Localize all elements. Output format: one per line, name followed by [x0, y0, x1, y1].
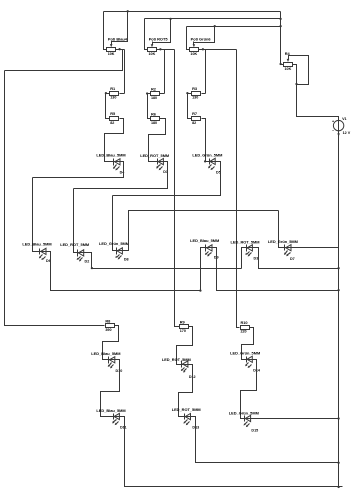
junction R1 left — [105, 92, 107, 94]
junction R3 left — [186, 92, 188, 94]
svg-text:Poti Blau4: Poti Blau4 — [108, 36, 128, 41]
svg-text:220: 220 — [240, 330, 246, 334]
svg-text:−: − — [332, 129, 334, 133]
wire top rail 1 (pot1 supply) — [104, 11, 281, 13]
wire pot1 to R1 right terminal — [124, 50, 126, 94]
svg-text:R1: R1 — [110, 86, 116, 91]
wire R7 right down to LED D5 — [202, 119, 210, 162]
svg-text:+: + — [332, 119, 334, 123]
junction pot2 wiper on rail2 — [169, 18, 171, 20]
wire pot2 branch down to R9 — [175, 50, 180, 327]
resistor R1 value 130 — [110, 86, 119, 100]
wire down into row2 right Gruen LED D7 — [279, 211, 285, 248]
wire D14 out jog to D15 — [241, 360, 257, 419]
wire R2 right stub — [160, 93, 165, 95]
wire V1 negative rail down right side — [338, 131, 340, 488]
wire D9 out down and right to negative rail — [213, 248, 339, 291]
svg-text:LED_Grün_5MM: LED_Grün_5MM — [192, 153, 222, 158]
svg-text:10K: 10K — [149, 52, 156, 56]
wire up into row2 right Blau LED D9 — [201, 248, 206, 291]
svg-text:12 V: 12 V — [343, 131, 351, 135]
svg-text:D8: D8 — [124, 258, 129, 262]
wire down to row2 left ROT LED — [74, 189, 78, 253]
svg-text:130: 130 — [192, 96, 198, 100]
wire D11 out down to bottom rail — [120, 417, 343, 487]
wire R10 right to LED D14 — [242, 328, 254, 360]
resistor R5 value 82 — [110, 111, 119, 125]
wire pot3 left terminal to rail3 — [187, 27, 190, 50]
svg-text:180: 180 — [151, 96, 157, 100]
junction pot3 wiper on rail3 — [214, 25, 216, 27]
junction rail3/vertical — [279, 25, 281, 27]
wire pot1 wiper loop to rail1 — [112, 12, 128, 43]
wire D6 out down to bus — [47, 252, 201, 291]
wire down to row2 left Gruen LED — [113, 196, 117, 251]
wire top rail 3 (pot3 supply) — [187, 26, 281, 28]
junction rail2/vertical — [279, 18, 281, 20]
wire D13 out down to return rail — [191, 417, 339, 463]
wire D4 out down and left — [33, 162, 124, 178]
svg-text:10K: 10K — [108, 52, 115, 56]
LED D4 (LED_Blau_5MM) — [96, 153, 125, 175]
LED D12 (LED_ROT_5MM) — [162, 357, 196, 379]
wire R9 right to LED D12 — [177, 327, 193, 365]
wire pot3 to R3 right terminal — [205, 50, 207, 94]
svg-text:82: 82 — [110, 121, 114, 125]
wire R2 left to R6 left — [148, 94, 151, 119]
svg-text:R7: R7 — [192, 111, 197, 116]
svg-text:LED_ROT_5MM: LED_ROT_5MM — [60, 242, 89, 247]
junction R4 output — [295, 83, 297, 85]
LED D2 (LED_ROT_5MM) — [60, 242, 89, 263]
junction rot return on rail — [337, 267, 339, 269]
resistor R6 value 180 — [151, 111, 160, 125]
resistor R8 value 390 — [105, 319, 114, 333]
svg-text:D14: D14 — [253, 369, 261, 373]
svg-text:LED_Grün_5MM: LED_Grün_5MM — [230, 351, 260, 356]
svg-text:LED_ROT_5MM: LED_ROT_5MM — [231, 239, 260, 244]
wire pot2 wiper loop to rail2 — [153, 19, 171, 43]
wire pot1 left terminal to rail1 — [104, 12, 107, 50]
svg-text:D11: D11 — [120, 426, 127, 430]
resistor R2 value 180 — [151, 86, 160, 100]
svg-text:82: 82 — [192, 121, 196, 125]
resistor R10 value 220 — [240, 320, 249, 334]
svg-text:R5: R5 — [110, 111, 116, 116]
svg-text:Poti ROT5: Poti ROT5 — [149, 37, 169, 42]
wire up into row2 right ROT LED D3 — [242, 248, 247, 269]
wire D5 out down and left — [113, 162, 221, 196]
svg-text:Poti Grün6: Poti Grün6 — [191, 37, 212, 42]
potentiometer R4 value 10K — [284, 51, 293, 71]
wire left rail down to R8 — [5, 71, 105, 326]
svg-text:LED_ROT_5MM: LED_ROT_5MM — [172, 407, 201, 412]
wire R4 right terminal down — [293, 65, 297, 85]
wire pot3 right terminal branches — [199, 49, 237, 51]
wire D2 out down to bus — [84, 253, 242, 269]
svg-text:LED_Blau_5MM: LED_Blau_5MM — [91, 351, 120, 356]
LED D11 (LED_Blau_5MM) — [96, 408, 126, 430]
svg-text:10K: 10K — [285, 67, 292, 71]
svg-text:R9: R9 — [180, 320, 186, 325]
voltage source V1 12V — [332, 117, 351, 137]
junction bottom rail corner — [337, 486, 339, 488]
svg-text:V1: V1 — [342, 117, 347, 121]
svg-text:D3: D3 — [254, 256, 259, 260]
junction R2 left — [146, 92, 148, 94]
wire pot2 left terminal to rail2 — [145, 19, 148, 50]
wire R5 right to LED D4 — [105, 119, 124, 162]
svg-text:LED_ROT_5MM: LED_ROT_5MM — [162, 357, 191, 362]
svg-text:D7: D7 — [290, 257, 295, 261]
LED D13 (LED_ROT_5MM) — [172, 407, 201, 429]
wire D10 out jog to D11 — [101, 360, 120, 417]
LED D7 (LED_Grün_5MM) — [268, 239, 298, 261]
LED D1 (LED_ROT_5MM) — [140, 153, 169, 174]
junction pot2 right terminal — [159, 48, 161, 50]
junction pot1 right terminal — [118, 48, 120, 50]
wire R3 right stub — [202, 93, 206, 95]
wire R1 right stub — [120, 93, 125, 95]
resistor R9 value 170 — [180, 320, 189, 334]
LED D9 (LED_Blau_5MM) — [190, 238, 219, 259]
wire R4 output to V1 plus — [297, 85, 339, 121]
svg-text:R2: R2 — [151, 86, 157, 91]
LED D8 (LED_Grün_5MM) — [99, 241, 129, 262]
svg-text:390: 390 — [105, 328, 111, 332]
junction R4 left terminal — [279, 63, 281, 65]
wire D7 out right to negative rail — [291, 247, 339, 249]
wire R3 left to R7 left — [188, 94, 192, 119]
svg-text:LED_Grün_5MM: LED_Grün_5MM — [99, 241, 129, 246]
potentiometer P1 value 10K — [107, 36, 128, 56]
svg-text:D10: D10 — [116, 369, 123, 373]
wire D8 out up and right — [123, 211, 279, 251]
wire pot1 branch to left rail (down, left) — [5, 50, 123, 71]
svg-text:LED_Blau_5MM: LED_Blau_5MM — [190, 238, 219, 243]
wire pot3 branch down to R10 — [237, 50, 240, 328]
wire D12 out jog to D13 — [179, 365, 193, 417]
wire pot3 wiper loop to rail3 — [194, 27, 215, 43]
LED D6 (LED_Blau_5MM) — [22, 242, 51, 263]
junction at D5 input — [204, 160, 206, 162]
resistor R3 value 130 — [192, 86, 201, 100]
svg-text:130: 130 — [110, 96, 116, 100]
resistor R7 value 82 — [192, 111, 201, 125]
junction rot bus corner — [91, 267, 93, 269]
junction blau bus to D9 — [199, 289, 201, 291]
wire rails to R4 left — [280, 12, 282, 65]
svg-text:D2: D2 — [85, 259, 90, 263]
wire R6 right to LED D1 — [149, 119, 166, 162]
svg-text:LED_Blau_5MM: LED_Blau_5MM — [96, 153, 125, 158]
svg-text:R3: R3 — [192, 86, 198, 91]
wire R8 right to LED D10 — [103, 326, 119, 360]
svg-text:D15: D15 — [251, 428, 258, 432]
svg-text:R10: R10 — [240, 320, 247, 325]
wire R4 left stub — [281, 64, 284, 66]
svg-text:LED_Blau_5MM: LED_Blau_5MM — [96, 408, 125, 413]
LED D15 (LED_Grün_5MM) — [229, 411, 259, 433]
wire R1 left to R5 left — [106, 94, 110, 119]
potentiometer P2 value 10K — [148, 37, 169, 57]
LED D3 (LED_ROT_5MM) — [231, 239, 260, 260]
wire D1 out down and left — [74, 162, 168, 189]
LED D14 (LED_Grün_5MM) — [230, 351, 261, 373]
junction pot1 wiper on rail1 — [127, 10, 129, 12]
wire pot1 right terminal branches — [116, 49, 125, 51]
junction pot3 right terminal — [202, 48, 204, 50]
LED D5 (LED_Grün_5MM) — [192, 153, 222, 175]
svg-text:180: 180 — [151, 121, 157, 125]
junction gruen string B return on rail — [337, 417, 339, 419]
svg-text:LED_Grün_5MM: LED_Grün_5MM — [268, 239, 298, 244]
LED D10 (LED_Blau_5MM) — [91, 351, 122, 373]
junction blau return on rail — [337, 289, 339, 291]
potentiometer P3 value 10K — [190, 37, 212, 57]
svg-text:10K: 10K — [190, 52, 197, 56]
wire pot2 to R2 right terminal — [164, 50, 166, 94]
wire D15 out right to negative rail — [251, 418, 339, 420]
svg-text:LED_Grün_5MM: LED_Grün_5MM — [229, 411, 259, 416]
wire D3 out down and right to negative rail — [253, 248, 339, 269]
junction rot string B return on rail — [337, 462, 339, 464]
wire R4 wiper loop — [289, 56, 309, 85]
svg-text:LED_ROT_5MM: LED_ROT_5MM — [140, 153, 169, 158]
wire pot2 right terminal branches — [157, 49, 175, 51]
svg-text:LED_Blau_5MM: LED_Blau_5MM — [22, 242, 51, 247]
wire down to row2 left Blau LED — [33, 178, 40, 252]
wire top rail 2 (pot2 supply) — [145, 18, 281, 20]
svg-text:R8: R8 — [105, 319, 111, 324]
svg-text:R6: R6 — [151, 111, 157, 116]
svg-text:170: 170 — [180, 329, 186, 333]
